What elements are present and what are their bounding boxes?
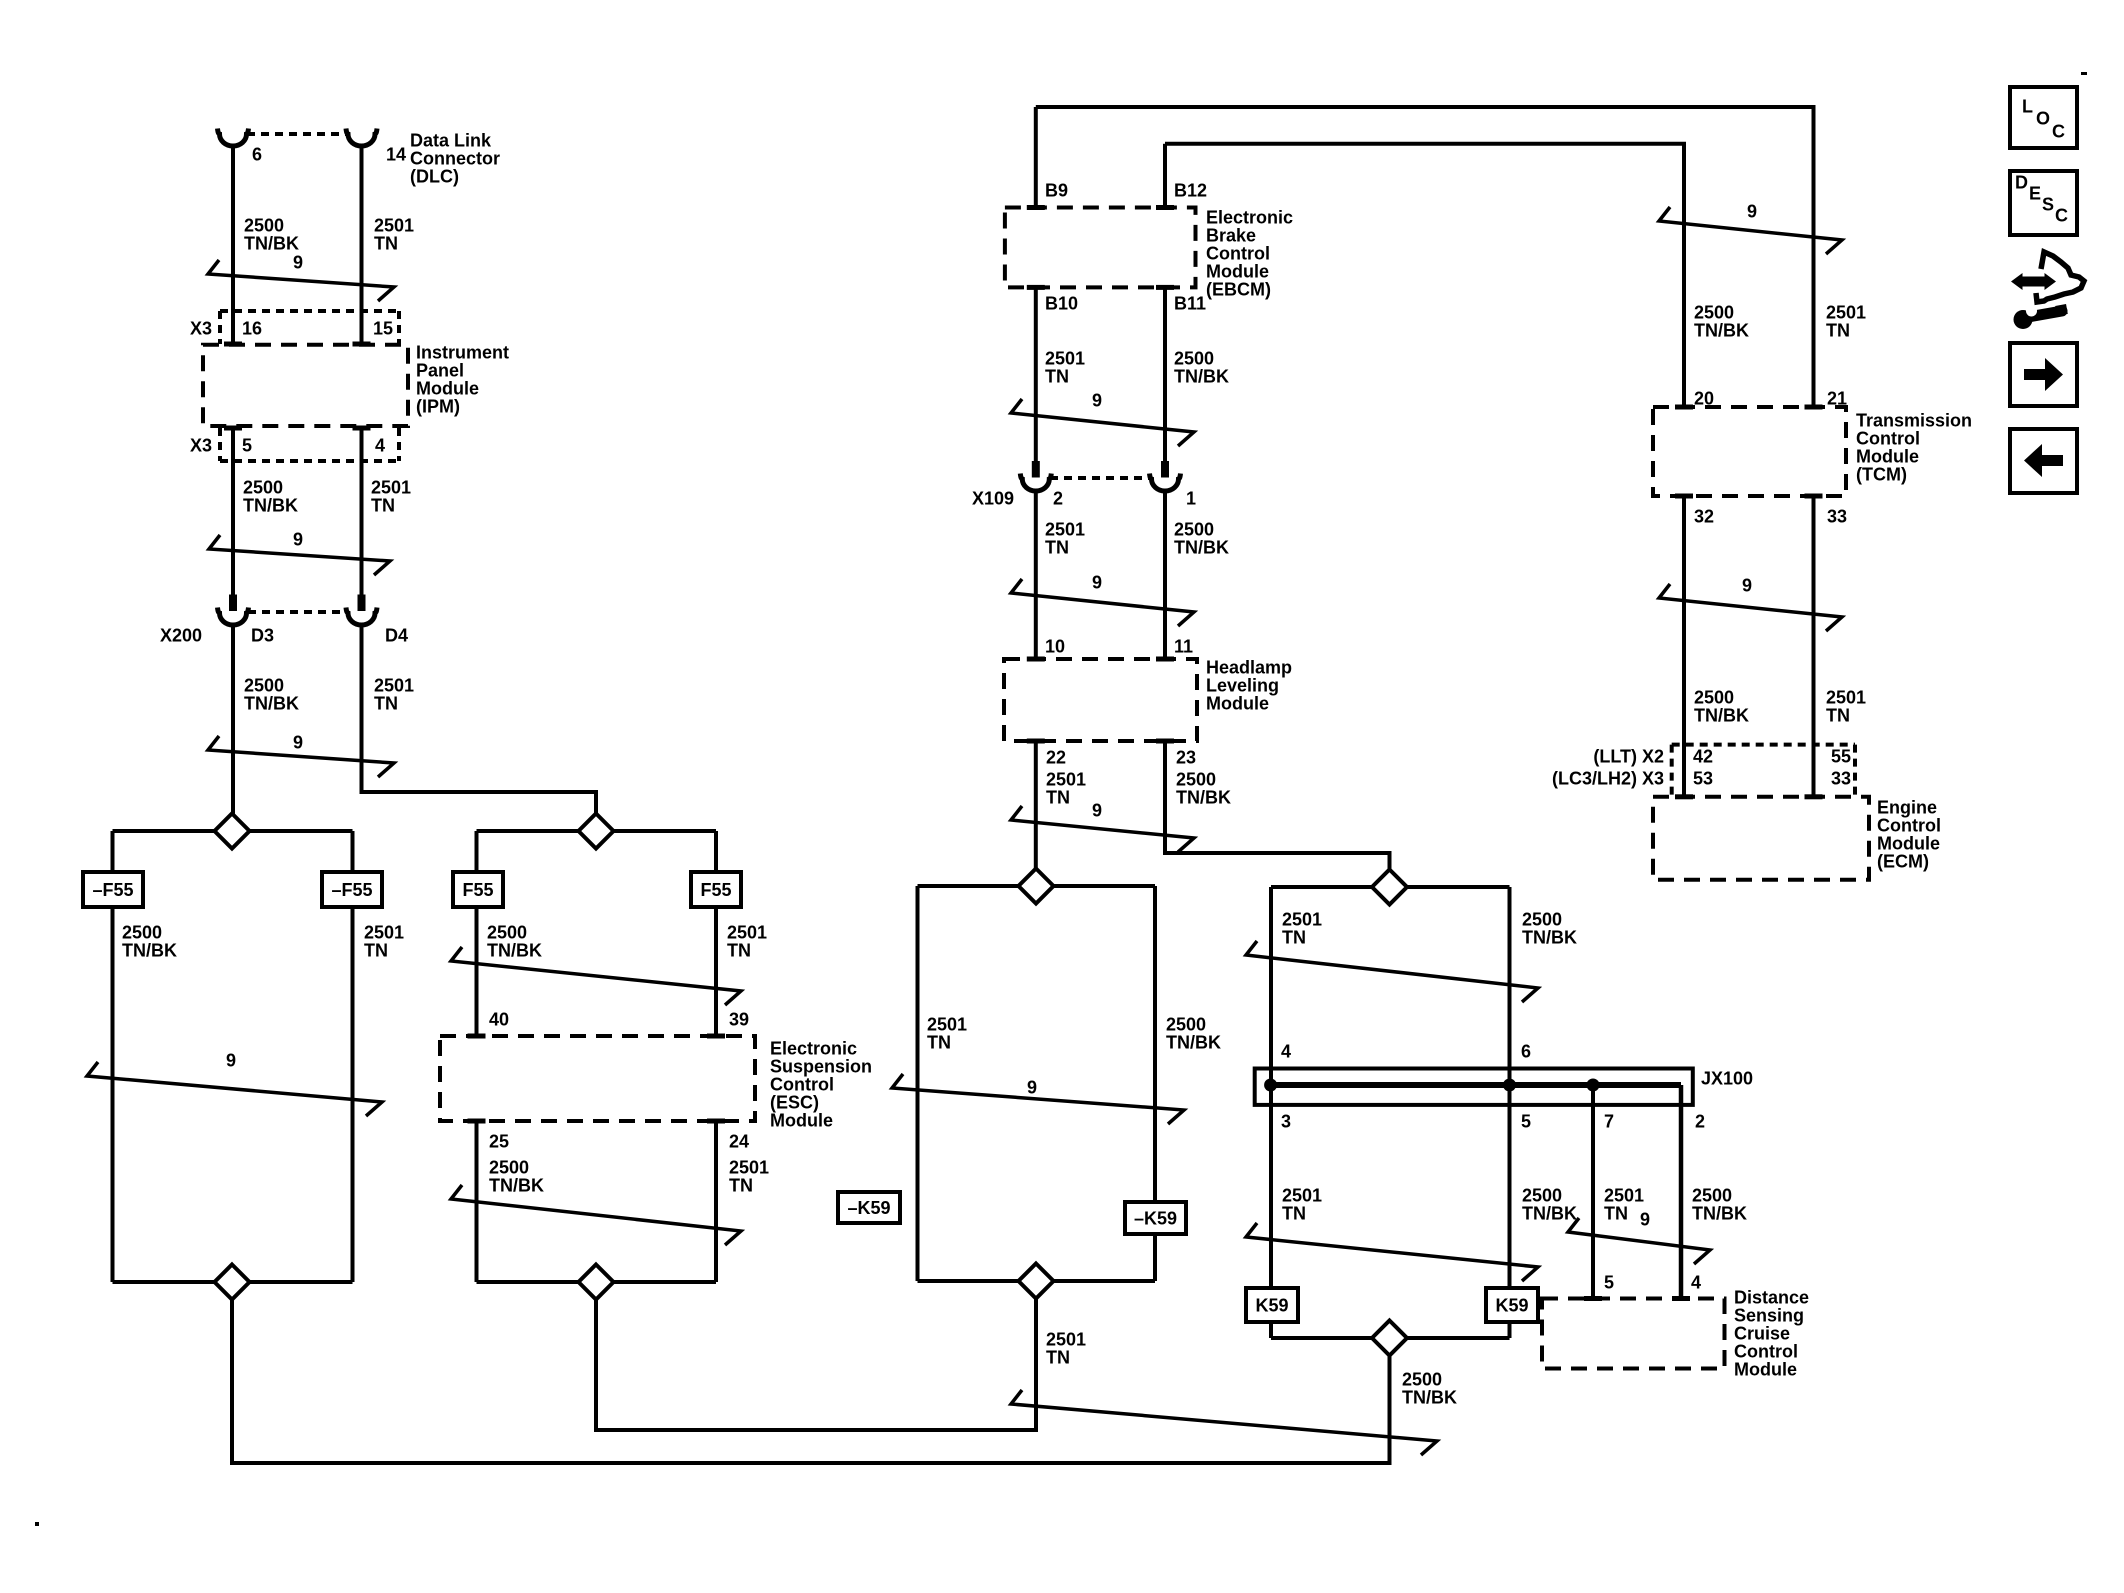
pin stub 32 (1675, 494, 1693, 499)
svg-text:2501: 2501 (1046, 770, 1086, 790)
wire 2501 TN TCM-33 to ECM (1812, 498, 1816, 797)
connector X3 row top (220, 309, 399, 313)
svg-text:2500: 2500 (1166, 1015, 1206, 1035)
svg-text:F55: F55 (700, 880, 731, 900)
icon DESC box (2010, 171, 2077, 235)
svg-text:TN: TN (1045, 367, 1069, 387)
module Electronic Suspension Control (ESC) (440, 1036, 755, 1121)
twisted pair symbol T11 (1011, 399, 1194, 446)
svg-text:–F55: –F55 (331, 880, 372, 900)
svg-text:5: 5 (1521, 1112, 1531, 1132)
artifact dots (2081, 72, 2087, 75)
pin stub 55/33 (1805, 794, 1823, 799)
wire 2501 TN DLC-14 to IPM-15 (360, 147, 364, 344)
svg-text:(IPM): (IPM) (416, 397, 460, 417)
pin stub 5 (224, 426, 242, 431)
svg-text:32: 32 (1694, 507, 1714, 527)
svg-text:TN/BK: TN/BK (244, 234, 299, 254)
twisted pair symbol T1 (208, 260, 394, 301)
svg-text:2500: 2500 (487, 923, 527, 943)
twisted pair symbol T3 (208, 736, 394, 777)
wire 2500 TN/BK IPM-5 to X200-D3 (231, 430, 235, 595)
svg-text:TN/BK: TN/BK (1694, 706, 1749, 726)
connector Data Link Connector cup pin 14 (346, 129, 377, 147)
wire 2501 TN IPM-4 to X200-D4 (360, 430, 364, 595)
svg-text:X200: X200 (160, 626, 202, 646)
label box -K59 on wire (1125, 1202, 1186, 1234)
svg-text:B12: B12 (1174, 181, 1207, 201)
pin stub B10 (1027, 285, 1045, 290)
svg-text:2500: 2500 (1522, 1186, 1562, 1206)
svg-text:5: 5 (1604, 1273, 1614, 1293)
svg-text:2500: 2500 (1176, 770, 1216, 790)
twisted pair symbol T9 (1246, 1223, 1538, 1281)
svg-text:23: 23 (1176, 748, 1196, 768)
svg-text:42: 42 (1693, 747, 1713, 767)
wire 2500 TN/BK X200-D3 to splice (231, 626, 235, 814)
svg-text:C: C (2052, 122, 2065, 142)
pin stub 25 (468, 1119, 486, 1124)
wire 2501 TN B10 to X109-2 (1034, 289, 1038, 461)
svg-text:Sensing: Sensing (1734, 1306, 1804, 1326)
label box F55 right (691, 872, 741, 907)
svg-text:2501: 2501 (364, 923, 404, 943)
svg-text:55: 55 (1831, 747, 1851, 767)
svg-text:TN: TN (1282, 928, 1306, 948)
pin stub 16 (224, 342, 242, 347)
pin stub B11 (1156, 285, 1174, 290)
svg-text:O: O (2036, 109, 2050, 129)
svg-text:2501: 2501 (727, 923, 767, 943)
svg-text:2500: 2500 (122, 923, 162, 943)
svg-text:Engine: Engine (1877, 798, 1937, 818)
wire 2500 TN/BK B11 to X109-1 (1163, 289, 1167, 461)
pin stub 4 (353, 426, 371, 431)
wire 2501 TN JX100-7 to DSCCM-5 (1591, 1085, 1595, 1299)
svg-text:L: L (2022, 97, 2033, 117)
svg-text:2501: 2501 (927, 1015, 967, 1035)
svg-text:TN/BK: TN/BK (122, 941, 177, 961)
svg-text:Leveling: Leveling (1206, 676, 1279, 696)
splice S6 box B bottom (579, 1265, 614, 1300)
connector ECM X2/X3 row (1672, 743, 1855, 747)
twisted pair symbol T15 (1659, 584, 1842, 631)
svg-text:TN/BK: TN/BK (1174, 538, 1229, 558)
svg-text:B10: B10 (1045, 294, 1078, 314)
svg-text:2501: 2501 (1826, 688, 1866, 708)
svg-text:(DLC): (DLC) (410, 167, 459, 187)
svg-text:Module: Module (1206, 694, 1269, 714)
svg-text:X109: X109 (972, 489, 1014, 509)
pin stub 5 (1584, 1296, 1602, 1301)
svg-text:F55: F55 (462, 880, 493, 900)
pin stub 15 (353, 342, 371, 347)
svg-text:2500: 2500 (244, 216, 284, 236)
svg-text:(ECM): (ECM) (1877, 852, 1929, 872)
wire dotted link X200 (248, 610, 346, 614)
pin stub 24 (707, 1119, 725, 1124)
pin stub 4 (1672, 1296, 1690, 1301)
wire dotted link DLC (247, 132, 348, 136)
splice S8 box D bottom (1372, 1321, 1407, 1356)
connector Data Link Connector cup pin 6 (218, 129, 249, 147)
wire loop box B 2500/2501 (477, 831, 717, 1282)
svg-text:–K59: –K59 (847, 1198, 890, 1218)
svg-text:16: 16 (242, 319, 262, 339)
svg-text:9: 9 (293, 253, 303, 273)
svg-text:2501: 2501 (374, 216, 414, 236)
icon right arrow box (2010, 343, 2077, 406)
svg-text:53: 53 (1693, 769, 1713, 789)
svg-text:Distance: Distance (1734, 1288, 1809, 1308)
svg-text:2501: 2501 (729, 1158, 769, 1178)
svg-text:Control: Control (1734, 1342, 1798, 1362)
svg-text:Suspension: Suspension (770, 1057, 872, 1077)
svg-text:TN: TN (1826, 706, 1850, 726)
svg-text:9: 9 (1742, 576, 1752, 596)
junction dot JX100-7 (1587, 1079, 1600, 1092)
svg-text:TN: TN (1282, 1204, 1306, 1224)
svg-text:TN/BK: TN/BK (1402, 1388, 1457, 1408)
pin stub 33 (1805, 494, 1823, 499)
splice S3 box C top (1019, 869, 1054, 904)
svg-text:C: C (2055, 206, 2068, 226)
svg-text:TN/BK: TN/BK (244, 694, 299, 714)
svg-text:TN: TN (729, 1176, 753, 1196)
svg-text:9: 9 (1640, 1210, 1650, 1230)
wire 2501 TN HLM-22 to splice box C (1034, 743, 1038, 869)
svg-text:Module: Module (1734, 1360, 1797, 1380)
svg-text:D4: D4 (385, 626, 408, 646)
pin stub 42/53 (1675, 794, 1693, 799)
wire loop box C 2501/2500 (918, 886, 1156, 1281)
splice S4 box D top (1372, 870, 1407, 905)
svg-text:39: 39 (729, 1010, 749, 1030)
svg-text:X3: X3 (190, 319, 212, 339)
svg-text:X3: X3 (190, 436, 212, 456)
wire 2500 TN/BK X109-1 to HLM-11 (1163, 492, 1167, 659)
svg-text:–K59: –K59 (1134, 1209, 1177, 1229)
svg-text:2500: 2500 (1174, 520, 1214, 540)
svg-text:14: 14 (386, 145, 406, 165)
junction dot JX100-5 (1503, 1079, 1516, 1092)
svg-text:TN/BK: TN/BK (1522, 1204, 1577, 1224)
twisted pair symbol T4 (87, 1062, 382, 1116)
svg-text:S: S (2042, 195, 2054, 215)
connector X200 pin D3 (229, 595, 237, 612)
svg-text:9: 9 (226, 1051, 236, 1071)
svg-text:TN: TN (1046, 788, 1070, 808)
svg-text:Control: Control (770, 1075, 834, 1095)
svg-text:TN/BK: TN/BK (489, 1176, 544, 1196)
svg-text:1: 1 (1186, 489, 1196, 509)
svg-text:TN: TN (1604, 1204, 1628, 1224)
twisted pair symbol T14 (1659, 207, 1842, 254)
svg-text:33: 33 (1827, 507, 1847, 527)
svg-text:11: 11 (1174, 637, 1193, 657)
svg-text:(LC3/LH2) X3: (LC3/LH2) X3 (1552, 769, 1664, 789)
svg-text:9: 9 (1092, 573, 1102, 593)
svg-text:E: E (2029, 184, 2041, 204)
svg-text:2500: 2500 (1402, 1370, 1442, 1390)
svg-text:Data Link: Data Link (410, 131, 492, 151)
svg-text:TN: TN (374, 234, 398, 254)
pin stub 40 (468, 1034, 486, 1039)
wire 2500 TN/BK JX100-2 to DSCCM-4 (1679, 1085, 1684, 1299)
twisted pair symbol T12 (1011, 579, 1194, 626)
svg-text:B11: B11 (1174, 294, 1206, 314)
svg-text:TN/BK: TN/BK (1694, 321, 1749, 341)
pin stub 39 (707, 1034, 725, 1039)
connector X109 pin 1 (1161, 461, 1169, 478)
twisted pair symbol T16 (1011, 1390, 1437, 1455)
svg-text:TN/BK: TN/BK (1166, 1033, 1221, 1053)
label box K59 left (1246, 1288, 1298, 1322)
svg-text:2501: 2501 (1282, 1186, 1322, 1206)
svg-text:Module: Module (770, 1111, 833, 1131)
svg-text:JX100: JX100 (1701, 1069, 1753, 1089)
svg-text:2501: 2501 (1045, 349, 1085, 369)
label box -F55 left (83, 872, 143, 907)
svg-text:2501: 2501 (1282, 910, 1322, 930)
svg-text:TN: TN (364, 941, 388, 961)
module Transmission Control Module (TCM) (1653, 407, 1846, 496)
svg-text:15: 15 (373, 319, 393, 339)
wire 2501 TN box B to box C bottom (596, 1282, 1036, 1430)
svg-text:TN/BK: TN/BK (487, 941, 542, 961)
module Distance Sensing Cruise Control Module (1542, 1299, 1725, 1369)
pin stub 21 (1805, 405, 1823, 410)
svg-text:25: 25 (489, 1132, 509, 1152)
svg-text:Module: Module (1206, 262, 1269, 282)
svg-text:4: 4 (375, 436, 385, 456)
twisted pair symbol T2 (209, 535, 390, 575)
svg-text:2500: 2500 (489, 1158, 529, 1178)
svg-text:TN: TN (927, 1033, 951, 1053)
wire dotted link X109 (1050, 476, 1150, 480)
wire loop box A 2500/2501 (113, 831, 353, 1282)
label box F55 left (453, 872, 503, 907)
svg-text:(EBCM): (EBCM) (1206, 280, 1271, 300)
wire 2500 TN/BK TCM-32 to ECM (1682, 498, 1686, 797)
wire 2501 TN top run to TCM-21 (1036, 107, 1814, 407)
pin stub 22 (1027, 739, 1045, 744)
splice S1 box A top (215, 814, 250, 849)
svg-text:TN: TN (1826, 321, 1850, 341)
svg-text:22: 22 (1046, 748, 1066, 768)
svg-text:TN/BK: TN/BK (1176, 788, 1231, 808)
svg-text:6: 6 (1521, 1042, 1531, 1062)
svg-text:2501: 2501 (1046, 1330, 1086, 1350)
svg-text:Control: Control (1877, 816, 1941, 836)
svg-text:Control: Control (1856, 429, 1920, 449)
svg-text:40: 40 (489, 1010, 509, 1030)
splice S5 box A bottom (215, 1265, 250, 1300)
svg-text:2500: 2500 (1692, 1186, 1732, 1206)
svg-text:K59: K59 (1255, 1296, 1288, 1316)
pin stub 23 (1156, 739, 1174, 744)
svg-text:(ESC): (ESC) (770, 1093, 819, 1113)
svg-text:4: 4 (1691, 1273, 1701, 1293)
wire 2500 TN/BK box A to box D bottom (232, 1282, 1390, 1463)
connector X3 row bottom (220, 459, 399, 463)
label box -K59 floating (838, 1192, 900, 1223)
pin stub 11 (1156, 657, 1174, 662)
svg-text:2501: 2501 (374, 676, 414, 696)
svg-text:9: 9 (1092, 391, 1102, 411)
icon wrench and route (2011, 252, 2084, 329)
twisted pair symbol T10 (1568, 1218, 1710, 1264)
svg-text:D3: D3 (251, 626, 274, 646)
svg-text:TN/BK: TN/BK (1522, 928, 1577, 948)
svg-text:Electronic: Electronic (770, 1039, 857, 1059)
svg-text:–F55: –F55 (92, 880, 133, 900)
svg-text:2: 2 (1695, 1112, 1705, 1132)
svg-text:2500: 2500 (1522, 910, 1562, 930)
svg-text:Control: Control (1206, 244, 1270, 264)
svg-text:TN/BK: TN/BK (243, 496, 298, 516)
svg-text:D: D (2015, 173, 2028, 193)
module Instrument Panel Module (IPM) (203, 345, 408, 426)
pin stub 20 (1675, 405, 1693, 410)
icon left arrow box (2010, 429, 2077, 493)
svg-text:B9: B9 (1045, 181, 1068, 201)
svg-text:Module: Module (1877, 834, 1940, 854)
wire 2500 TN/BK HLM-23 to splice box D (1165, 743, 1390, 870)
svg-text:Brake: Brake (1206, 226, 1256, 246)
svg-text:Panel: Panel (416, 361, 464, 381)
connector X200 pin D4 (358, 595, 366, 612)
svg-text:TN/BK: TN/BK (1174, 367, 1229, 387)
svg-text:TN: TN (1045, 538, 1069, 558)
pin stub 10 (1027, 657, 1045, 662)
icon LOC box (2010, 87, 2077, 148)
junction block JX100 (1255, 1069, 1693, 1105)
label box K59 right (1486, 1288, 1538, 1322)
svg-text:2501: 2501 (1045, 520, 1085, 540)
svg-text:(LLT) X2: (LLT) X2 (1593, 747, 1664, 767)
svg-text:Module: Module (416, 379, 479, 399)
svg-text:2501: 2501 (1826, 303, 1866, 323)
svg-text:7: 7 (1604, 1112, 1614, 1132)
wire 2501 TN EBCM B9 riser (1034, 107, 1038, 208)
svg-text:2500: 2500 (244, 676, 284, 696)
svg-text:2: 2 (1053, 489, 1063, 509)
svg-text:Transmission: Transmission (1856, 411, 1972, 431)
svg-text:2501: 2501 (371, 478, 411, 498)
svg-text:6: 6 (252, 145, 262, 165)
wire 2500 TN/BK run to TCM-20 (1165, 144, 1684, 407)
svg-text:TN: TN (371, 496, 395, 516)
svg-text:10: 10 (1045, 637, 1065, 657)
module Engine Control Module (ECM) (1653, 797, 1869, 880)
svg-text:Cruise: Cruise (1734, 1324, 1790, 1344)
twisted pair symbol T8 (1246, 941, 1538, 1002)
svg-text:9: 9 (1747, 202, 1757, 222)
svg-text:TN: TN (727, 941, 751, 961)
wire 2500 TN/BK DLC-6 to IPM-16 (231, 147, 235, 344)
svg-text:TN/BK: TN/BK (1692, 1204, 1747, 1224)
svg-text:4: 4 (1281, 1042, 1291, 1062)
wire 2501 TN X200-D4 to splice (362, 626, 597, 814)
module Headlamp Leveling Module (1004, 659, 1197, 741)
svg-text:9: 9 (293, 530, 303, 550)
pin stub B12 (1156, 205, 1174, 210)
svg-text:2500: 2500 (1174, 349, 1214, 369)
svg-text:Instrument: Instrument (416, 343, 509, 363)
twisted pair symbol T6 (451, 1185, 741, 1245)
svg-text:TN: TN (1046, 1348, 1070, 1368)
svg-text:33: 33 (1831, 769, 1851, 789)
svg-text:2500: 2500 (1694, 303, 1734, 323)
twisted pair symbol T13 (1011, 806, 1194, 852)
junction dot JX100-3 (1264, 1079, 1277, 1092)
svg-text:K59: K59 (1495, 1296, 1528, 1316)
svg-text:TN: TN (374, 694, 398, 714)
svg-text:2501: 2501 (1604, 1186, 1644, 1206)
wire 2501 TN X109-2 to HLM-10 (1034, 492, 1038, 659)
pin stub B9 (1027, 205, 1045, 210)
svg-text:5: 5 (242, 436, 252, 456)
wire loop box D 2501/2500 (1271, 887, 1510, 1338)
twisted pair symbol T7 (892, 1074, 1184, 1124)
svg-text:3: 3 (1281, 1112, 1291, 1132)
splice S7 box C bottom (1019, 1264, 1054, 1299)
wire 2500 TN/BK EBCM B12 riser (1163, 144, 1167, 208)
wire JX100 internal bus (1271, 1082, 1681, 1088)
svg-text:9: 9 (1092, 801, 1102, 821)
svg-text:Electronic: Electronic (1206, 208, 1293, 228)
twisted pair symbol T5 (451, 947, 741, 1005)
svg-text:9: 9 (293, 733, 303, 753)
svg-text:Headlamp: Headlamp (1206, 658, 1292, 678)
connector X109 pin 2 (1032, 461, 1040, 478)
svg-text:2500: 2500 (243, 478, 283, 498)
svg-text:Module: Module (1856, 447, 1919, 467)
splice S2 box B top (579, 814, 614, 849)
svg-text:24: 24 (729, 1132, 749, 1152)
module Electronic Brake Control Module (EBCM) (1005, 208, 1196, 288)
svg-text:9: 9 (1027, 1078, 1037, 1098)
svg-text:(TCM): (TCM) (1856, 465, 1907, 485)
svg-text:Connector: Connector (410, 149, 500, 169)
svg-text:2500: 2500 (1694, 688, 1734, 708)
label box -F55 right (322, 872, 382, 907)
